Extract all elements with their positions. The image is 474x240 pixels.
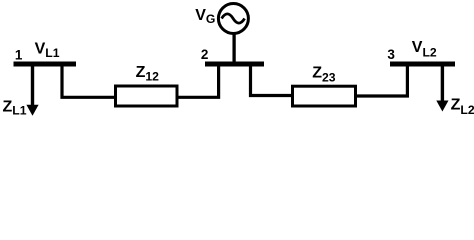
wire Z23 to bus3 [356, 64, 407, 96]
bus 1 [14, 62, 77, 67]
svg-text:Z23: Z23 [312, 65, 336, 85]
wire bus2 to Z23 [251, 64, 293, 96]
svg-text:Z12: Z12 [136, 64, 160, 84]
svg-text:ZL2: ZL2 [451, 96, 474, 117]
load Z_L2 arrow [436, 64, 448, 112]
wire Z12 to bus2 [177, 64, 219, 97]
generator V_G [218, 4, 248, 65]
svg-text:VL1: VL1 [35, 40, 60, 60]
load Z_L1 arrow [26, 64, 38, 116]
resistor Z_12 [116, 86, 178, 106]
svg-text:2: 2 [201, 47, 209, 62]
resistor Z_23 [293, 86, 356, 106]
svg-text:VL2: VL2 [412, 39, 437, 60]
wire bus1 to Z12 [62, 64, 115, 97]
bus 3 [390, 62, 455, 67]
svg-text:ZL1: ZL1 [3, 98, 27, 117]
bus 2 [205, 62, 264, 67]
svg-text:3: 3 [387, 47, 395, 62]
svg-text:VG: VG [195, 7, 215, 26]
svg-text:1: 1 [15, 47, 23, 62]
